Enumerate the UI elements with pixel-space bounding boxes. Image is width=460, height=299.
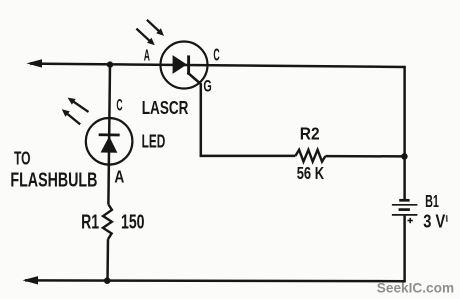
svg-text:LASCR: LASCR xyxy=(142,97,189,118)
svg-text:C: C xyxy=(213,45,219,65)
svg-text:3 V: 3 V xyxy=(423,210,446,231)
svg-text:150: 150 xyxy=(121,211,145,233)
svg-text:A: A xyxy=(144,48,150,65)
svg-text:G: G xyxy=(203,77,211,96)
svg-text:R1: R1 xyxy=(81,211,99,233)
svg-text:C: C xyxy=(116,97,122,115)
svg-text:56 K: 56 K xyxy=(297,163,325,183)
svg-text:FLASHBULB: FLASHBULB xyxy=(10,170,97,192)
svg-text:A: A xyxy=(114,166,124,186)
svg-text:TO: TO xyxy=(14,147,31,168)
svg-text:LED: LED xyxy=(142,131,166,152)
svg-text:B1: B1 xyxy=(425,191,439,211)
svg-text:R2: R2 xyxy=(300,123,320,143)
